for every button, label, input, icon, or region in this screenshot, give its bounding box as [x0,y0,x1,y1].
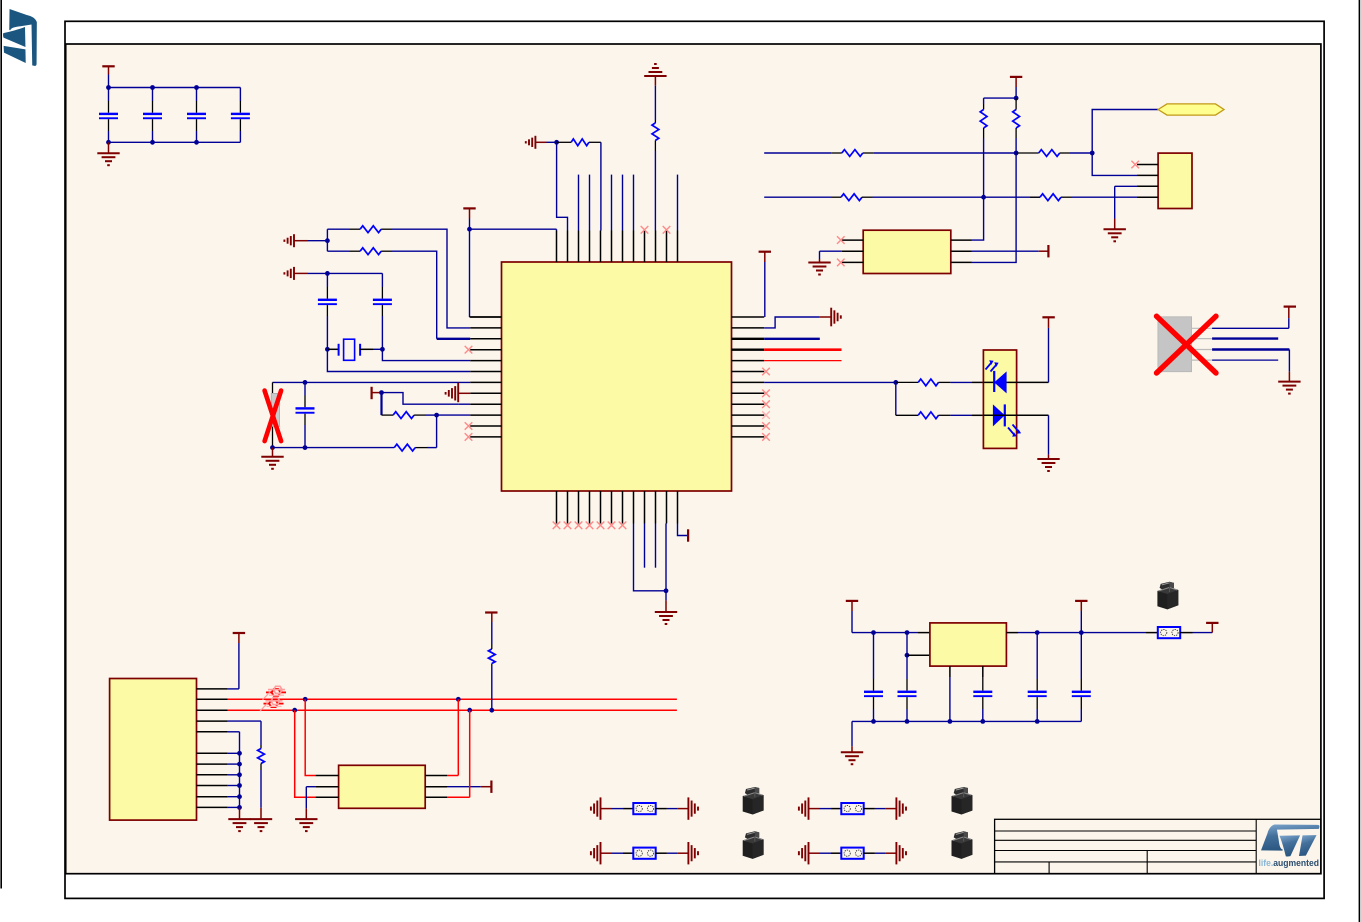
connector J2 pins [1137,164,1158,166]
sideways earth right (JP3) [687,842,689,864]
wire junction A down to U2 pin3 [972,153,1016,262]
LED1 wire through [983,381,1016,383]
stub left (JP1) [601,808,612,810]
wire A (SCL) [764,152,831,154]
red wire DP to ESD [295,710,316,797]
capacitor C12 [1080,633,1082,679]
sideways earth (crystal) [293,267,295,280]
wire pullup1 down to U2 pin [972,197,984,240]
ground (J1) [239,807,241,819]
wire U2 right pin2 to power [972,250,1039,252]
wire col to top pin 8 [633,175,635,231]
junction VDD [467,227,472,232]
wire bottom pin 11 to gnd [665,524,667,591]
ground (U3) [1288,372,1290,382]
power-left symbol (VDD small) [371,387,373,399]
U2 right pins [951,239,972,241]
stub earth row 8 [458,392,470,394]
resistor R5 (NRST) [557,141,572,143]
U1 left pins [470,316,501,318]
no-connect X right pin 9 [762,400,770,408]
ground (OSC32) [272,448,274,457]
sideways earth right (JP1) [687,797,689,819]
stub right (JP2) [864,808,875,810]
no-connect X U2 left pin1 [837,236,845,244]
junction A right [1090,151,1095,156]
junction OSC32 top [303,380,308,385]
dangling bus row 3 [764,338,820,340]
resistor R14 (LED2) [896,414,918,416]
NRST stub [535,141,546,143]
junction out C11 [1035,630,1040,635]
wire U5 R2 to power [447,786,481,788]
junction gnd rail [1035,719,1040,724]
wire R1 to left pin row 2 [392,229,470,328]
NRST net: sideways earth [534,136,536,149]
wire top rail cap bank [109,87,241,89]
wire OSC32 top rail [273,381,471,383]
wire U3 pin4 [1212,359,1278,361]
wire to left pin row 10 [437,414,471,416]
gnd column J1 [239,732,241,808]
ESD U5 body [339,765,426,808]
resistor R1 [327,228,349,230]
ground (U5) [305,808,307,819]
red wire USB DP [228,709,677,711]
ground (J2) [1114,219,1116,230]
wire VDD to right pin row 1 [764,262,766,317]
inverted ground (BOOT0) [644,75,666,77]
U5 right pins [425,775,447,777]
wire J1 pin1 to power [228,688,239,690]
power flag VDD (cap bank) [102,65,114,67]
wire U4 gnd pin [949,666,951,677]
red wire U5 R1 up to DM [447,775,458,777]
ferrite FB2 (not fitted) [269,700,278,707]
junction gnd rail [905,719,910,724]
jumper cap image B2 [952,831,973,859]
junction crystal right [380,347,385,352]
wire A up to flag [1092,110,1158,154]
wire A mid [873,152,1016,154]
sideways earth left (JP3) [600,842,602,864]
wire U2 left pin2 to gnd [820,250,842,252]
junction [106,85,111,90]
junction A / R10 [1014,151,1019,156]
sideways earth (left pin row 8) [454,386,456,400]
no-connect X J2 pin 1 [1131,161,1139,169]
U2 left pins [842,239,863,241]
resistor R6 (BOOT0 pulldown) [652,123,659,140]
wire VDD to top pin 1 [470,228,557,230]
capacitor C1 [108,88,110,102]
resistor R13 (LED1) [896,381,918,383]
no-connect X right pin 8 [762,390,770,398]
capacitor C3 [196,88,198,102]
bus U3 pin2 [1212,337,1278,339]
wire regulator input rail [852,632,918,634]
wire pullup top rail [984,97,1017,99]
no-connect X top pin 9 [641,226,649,234]
wire J1 pin to gnd column [228,806,240,808]
wire R6 to top pin 10 [654,151,656,231]
component U3 (not fitted) body [1158,317,1192,372]
no-connect X bottom pins 1-7 [553,522,561,530]
jumper cap image B1 [952,787,973,815]
stub right (JP1) [656,808,667,810]
junction [194,85,199,90]
wire R5 to top pin 5 [600,142,602,230]
capacitor C9 [906,655,908,679]
ground (R15) [260,808,262,819]
wire col to top pin 4 [589,175,591,231]
wire crystal top rail [327,272,382,274]
stub earth crystal [294,272,308,274]
capacitor C7 [304,382,306,395]
svg-text:life.augmented: life.augmented [1259,858,1320,868]
power flag (J1 pin1) [233,632,245,634]
not-fitted X (Y2) [265,391,282,442]
MCU U1 body [502,262,732,491]
wire col to top pin 7 [622,175,624,231]
stub right (JP3) [656,852,667,854]
junction crystal left [325,347,330,352]
resistor R8 on wire A [1016,152,1039,154]
crystal Y2 (not fitted) pins [272,382,274,394]
no-connect X left pin 11 [465,422,473,430]
U1 bottom pins [556,491,558,524]
sideways earth left (JP1) [600,797,602,819]
wire crystal right to left pin row 5 [382,349,470,360]
U1 top pins [556,231,558,263]
BOOT0 stem [654,76,656,86]
wire B to connector pin 4 [1072,196,1138,198]
resistor R7 on wire A [831,152,842,154]
junction gnd rail [980,719,985,724]
wire regulator ground rail [852,720,1081,722]
wire J1 pin to gnd column [228,796,240,798]
capacitor C4 [239,88,241,102]
power-right symbol (U5) [490,781,492,793]
junction EN [905,653,910,658]
stub right (JP4) [864,852,875,854]
power flag VDD (U1 top-left) [463,207,475,209]
wire EN pin [906,633,908,656]
regulator U4 body [930,623,1007,666]
wire gnd rail drop [851,721,853,746]
sideways earth (right row 2) [830,308,832,327]
wire LED branch down [895,382,897,415]
stub bottom pin 9 [644,524,646,568]
wire J1 pin to gnd column [228,763,240,765]
wire crystal left to left pin row 6 [327,349,470,371]
capacitor C10 (from U4 bottom) [982,666,984,677]
wire right pin row 2 to earth [764,317,820,328]
wire NRST jog to top pin 2 [557,142,568,230]
capacitor C5 [326,273,328,287]
red wire USB DM [228,698,677,700]
wire J1 pin to gnd column [228,785,240,787]
junction rail C8 [871,630,876,635]
junction DP b [467,708,472,713]
power flag (R16) [485,611,497,613]
resistor R3 [382,414,394,416]
wire bottom rail cap bank [109,141,241,143]
resistor R16 (pullup DP) [491,666,493,710]
wire right row 7 to LEDs [764,381,896,383]
wire A down [326,241,328,252]
junction gnd column [237,783,242,788]
stub left (JP4) [809,852,820,854]
jumper cap image A2 [743,831,764,859]
junction rail C9 [905,630,910,635]
ST logo top-left (rotated) [3,9,37,66]
resistor R10 (pullup 1) [983,98,985,104]
sheet edge right [1358,0,1360,922]
sheet edge left [0,0,2,889]
capacitor C11 [1036,633,1038,679]
ground (U2) [819,259,821,263]
junction NRST [554,140,559,145]
junction DM a [303,697,308,702]
power flag (VIN regulator) [846,600,858,602]
wire LED2 to ground [1017,414,1049,416]
power flag (U3) [1284,306,1296,308]
wire bottom pin 8 to gnd rail [634,524,667,591]
junction DP c [489,708,494,713]
power-right symbol (U2) [1047,245,1049,257]
resistor R11 on wire B [1030,196,1040,198]
no-connect X right pin 6 [762,368,770,376]
junction VDD small [379,390,384,395]
crystal Y1 [327,348,338,350]
sideways earth (RC filter A) [293,234,295,247]
wire B mid [873,196,1041,198]
net flag / port [1158,104,1224,115]
wire J1 pin to gnd column [228,774,240,776]
junction gnd column [237,751,242,756]
no-connect X left pin 4 [465,346,473,354]
not-fitted X (U3) [1157,316,1217,373]
wire J1 pin4 to R15 [228,720,261,722]
resistor R12 (pullup 2) [1015,98,1017,109]
wire power to rail [108,75,110,88]
power flag VDD (right of U1) [759,251,771,253]
wire bottom pin 12 to power [678,524,689,536]
wire B (SDA) [764,196,831,198]
stub earth A [294,240,308,242]
power flag (JP5) [1211,623,1213,633]
power flag (pullups) [1010,76,1022,78]
stub bottom pin 10 [655,524,657,568]
no-connect X right pin 12 [762,433,770,441]
junction B / pullup chain [981,195,986,200]
bus U3 pin3 to ground [1212,348,1289,350]
jumper JP5 [1146,632,1158,634]
wire U3 pin1 to power [1212,327,1289,329]
U1 right pins [732,316,765,318]
resistor R4 [394,444,415,451]
LED D1/D2 body [983,350,1016,448]
wire col to top pin 12 [677,175,679,231]
wire LED1 to power [1017,381,1049,383]
wire pullup1 down to wire B [983,138,985,197]
wire J1 pin5 to gnd column [228,731,240,733]
wire A down to connector pin 2 [1092,153,1137,175]
wire VDD small down [380,393,382,416]
jumper cap image (JP5) [1157,582,1178,610]
wire VDD down to left pin row 1 [469,229,471,317]
junction RC A [325,238,330,243]
junction OSC32 bottom left [270,445,275,450]
stub left (JP3) [601,852,612,854]
ground (LED) [1048,455,1050,459]
stub earth row 2 [820,316,831,318]
junction gnd column [237,794,242,799]
wire J2 pin3 to ground [1115,185,1137,187]
junction LED split [893,380,898,385]
resistor R2 [327,250,349,252]
red wire U5 R3 up to DP [447,796,470,798]
junction OSC32 bottom mid [303,445,308,450]
ground (cap bank) [108,142,110,153]
connector J1 body [110,679,197,821]
no-connect X top pin 11 [663,226,671,234]
sideways earth left (JP4) [808,842,810,864]
LED1 glyph [994,371,1006,393]
no-connect X right pin 10 [762,411,770,419]
ground (U1 bottom) [665,591,667,601]
connector J2 body [1158,153,1192,208]
red bus row 4 [764,348,841,351]
junction gnd column [237,772,242,777]
red wire DM to ESD [305,699,315,775]
resistor R9 on wire B [831,196,841,198]
jumper JP4 [841,848,863,859]
U5 left pins [316,775,339,777]
junction R3/R4 [434,413,439,418]
no-connect X left pin 12 [465,433,473,441]
sideways earth right (JP2) [895,797,897,819]
stub left (JP2) [809,808,820,810]
crystal Y2 body (gray) [271,393,279,426]
LED2 glyph [993,404,1005,426]
junction bottom gnd [664,588,669,593]
wire R2 to left pin row 3 [392,251,437,339]
capacitor C6 [381,273,383,287]
junction gnd rail [871,719,876,724]
junction out C12 [1079,630,1084,635]
title block [995,819,1321,873]
junction crystal gnd [325,271,330,276]
jumper JP2 [841,803,863,814]
no-connect X right pin 11 [762,422,770,430]
junction gnd rail [948,719,953,724]
ST logo (title block) [1261,825,1319,857]
junction gnd column [237,762,242,767]
jumper JP1 [633,803,655,814]
ground (regulator) [851,746,853,752]
junction DP a [292,708,297,713]
component U2 body [863,230,951,273]
red wire row 5 [764,360,841,362]
LED2 wire through [983,414,1016,416]
wire VDD small Z to row 9 [382,393,459,405]
wire A up [326,229,328,241]
sideways earth left (JP2) [808,797,810,819]
J1 pins [197,688,228,690]
junction DM b [456,697,461,702]
sideways earth right (JP4) [895,842,897,864]
junction pullup top [1014,96,1019,101]
wire BOOT0 to R6 [654,86,656,120]
U3 pins (gray) [1192,327,1213,329]
capacitor C2 [152,88,154,102]
power-right symbol (bottom pin 12) [687,529,689,541]
jumper cap image A1 [743,787,764,815]
wire col to top pin 3 [578,175,580,231]
junction gnd column [237,805,242,810]
wire OSC32 bottom rail [273,447,395,449]
capacitor C8 [873,633,875,679]
ferrite FB1 (not fitted) [272,689,281,696]
wire regulator output rail [1006,632,1018,634]
no-connect X U2 left pin3 [837,259,845,267]
junction [150,85,155,90]
power flag (3V3 mid) [1075,600,1087,602]
resistor R15 [260,745,262,749]
jumper JP3 [633,848,655,859]
wire U5 left pin2 to gnd [306,786,315,788]
wire J1 pin to gnd column [228,752,240,754]
power flag (LED) [1042,316,1054,318]
wire col to top pin 6 [611,175,613,231]
wire R4 up to junction [436,415,438,448]
